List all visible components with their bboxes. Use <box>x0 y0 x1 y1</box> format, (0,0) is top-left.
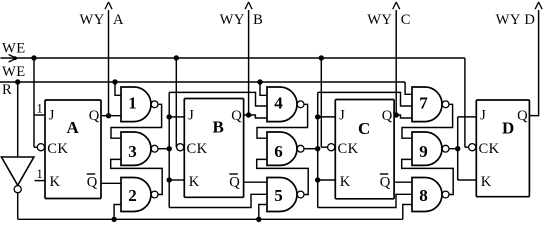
svg-text:Q: Q <box>89 108 100 124</box>
svg-text:2: 2 <box>128 186 137 205</box>
svg-text:6: 6 <box>274 142 283 161</box>
svg-text:J: J <box>188 108 194 124</box>
svg-text:Q: Q <box>382 108 393 124</box>
svg-text:K: K <box>50 174 61 190</box>
svg-text:K: K <box>481 174 492 190</box>
svg-text:J: J <box>49 108 55 124</box>
svg-text:Q: Q <box>231 108 242 124</box>
svg-text:Q: Q <box>517 108 528 124</box>
svg-text:WE: WE <box>2 64 26 80</box>
svg-text:Q: Q <box>229 174 240 190</box>
svg-text:CK: CK <box>479 141 500 157</box>
svg-text:9: 9 <box>419 142 428 161</box>
svg-text:K: K <box>189 174 200 190</box>
svg-text:CK: CK <box>338 141 359 157</box>
svg-text:WY: WY <box>220 12 245 28</box>
svg-text:1: 1 <box>128 93 137 112</box>
svg-text:5: 5 <box>274 186 283 205</box>
svg-text:4: 4 <box>274 93 283 112</box>
svg-text:K: K <box>340 174 351 190</box>
svg-text:8: 8 <box>419 186 428 205</box>
svg-text:WY: WY <box>80 12 105 28</box>
svg-text:B: B <box>213 118 225 137</box>
svg-text:C: C <box>401 12 411 28</box>
svg-text:Q: Q <box>87 174 98 190</box>
svg-text:3: 3 <box>128 142 137 161</box>
svg-text:CK: CK <box>187 141 208 157</box>
svg-text:WY: WY <box>367 12 392 28</box>
svg-text:D: D <box>502 119 515 138</box>
svg-text:7: 7 <box>419 93 428 112</box>
svg-text:C: C <box>358 119 371 138</box>
svg-text:A: A <box>113 12 124 28</box>
svg-text:WE: WE <box>2 41 26 57</box>
svg-text:WY D: WY D <box>496 12 536 28</box>
svg-text:1: 1 <box>37 167 44 181</box>
svg-text:A: A <box>67 118 80 137</box>
svg-text:Q: Q <box>380 174 391 190</box>
svg-text:B: B <box>253 12 263 28</box>
svg-text:J: J <box>339 108 345 124</box>
svg-text:R: R <box>2 82 12 98</box>
svg-text:J: J <box>480 108 486 124</box>
svg-text:1: 1 <box>37 102 44 116</box>
svg-text:CK: CK <box>47 141 68 157</box>
